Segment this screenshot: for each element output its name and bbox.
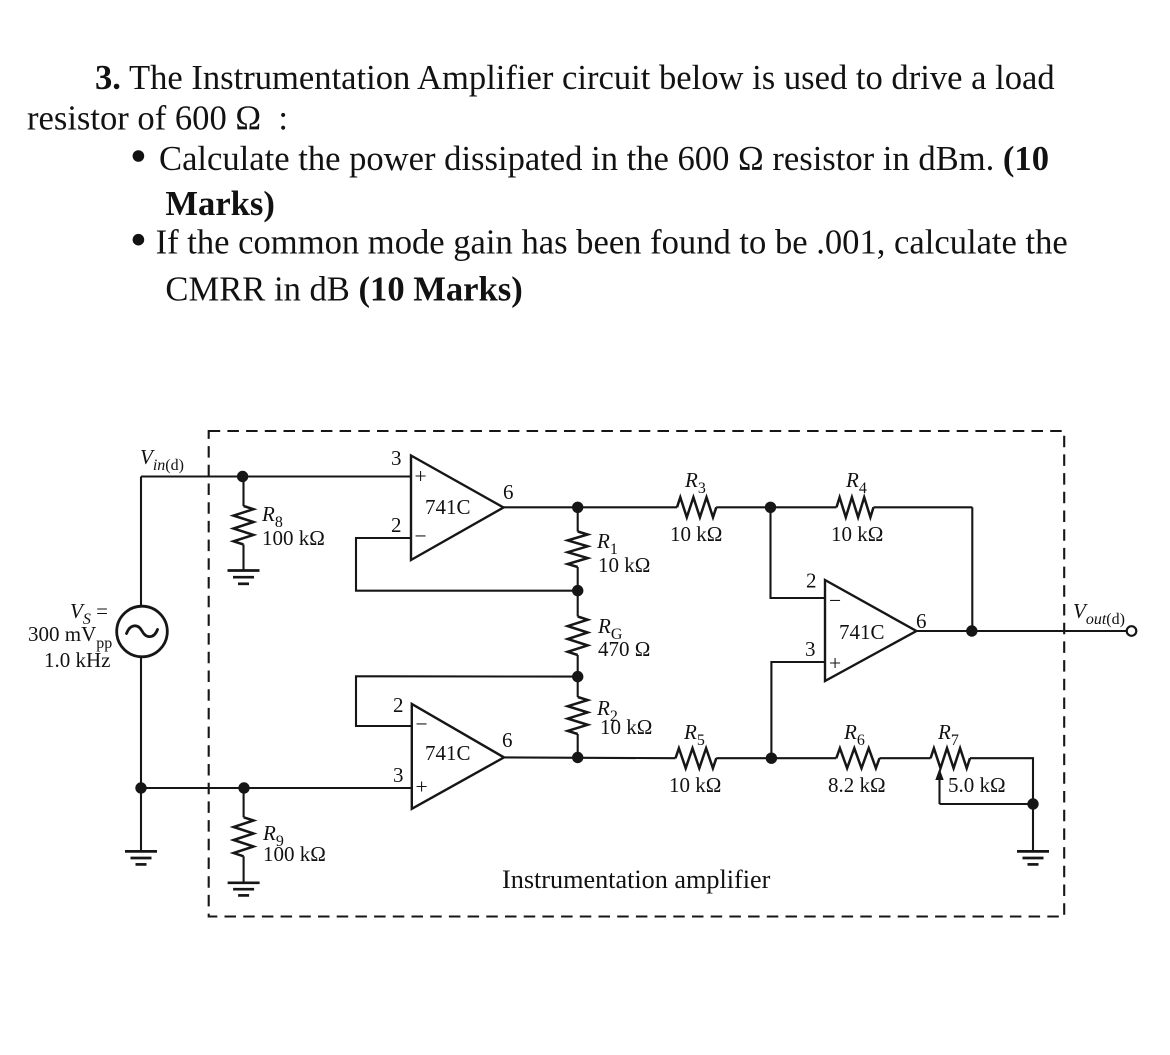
dashed enclosure box bbox=[209, 431, 1064, 917]
U3 label 741C bbox=[425, 741, 471, 765]
svg-text:R3: R3 bbox=[684, 468, 706, 497]
RG label bbox=[597, 614, 623, 643]
node junction R7 wiper/ground bbox=[1027, 798, 1038, 809]
VS value label bbox=[28, 599, 112, 672]
R5 label bbox=[683, 720, 705, 749]
svg-text:R5: R5 bbox=[683, 720, 705, 749]
svg-text:6: 6 bbox=[502, 728, 513, 752]
resistor R9 bbox=[234, 788, 254, 883]
op-amp U3 741C bbox=[412, 704, 504, 809]
voltage source VS bbox=[117, 606, 168, 657]
R9 label bbox=[262, 821, 284, 850]
svg-text:−: − bbox=[829, 589, 841, 613]
svg-text:−: − bbox=[415, 524, 427, 548]
svg-text:741C: 741C bbox=[839, 620, 885, 644]
svg-text:5.0 kΩ: 5.0 kΩ bbox=[948, 773, 1006, 797]
svg-text:Vout(d): Vout(d) bbox=[1073, 599, 1125, 628]
node Vout(d) label bbox=[1073, 599, 1125, 628]
R9 value label bbox=[263, 842, 326, 866]
svg-text:+: + bbox=[416, 775, 428, 799]
svg-text:2: 2 bbox=[391, 513, 402, 537]
svg-text:2: 2 bbox=[393, 693, 404, 717]
R1 value label bbox=[598, 553, 650, 577]
svg-text:R4: R4 bbox=[845, 468, 867, 497]
node junction RG/R2/feedback3 bbox=[572, 671, 583, 682]
caption Instrumentation amplifier bbox=[502, 865, 771, 894]
wire R7 ground lead bbox=[1032, 804, 1034, 851]
resistor R8 bbox=[234, 477, 254, 571]
ground (source) bbox=[125, 851, 157, 864]
svg-text:10 kΩ: 10 kΩ bbox=[669, 773, 721, 797]
R7 label bbox=[937, 720, 959, 749]
resistor R1 bbox=[568, 507, 588, 590]
wire U3 feedback pin2 bbox=[356, 676, 578, 726]
R3 label bbox=[684, 468, 706, 497]
ground (R8) bbox=[228, 571, 260, 584]
wire U1 output rail bbox=[504, 506, 678, 508]
svg-text:2: 2 bbox=[806, 569, 817, 593]
R4 value label bbox=[831, 522, 883, 546]
node junction R5/U2 pin3 bbox=[766, 753, 777, 764]
svg-text:100 kΩ: 100 kΩ bbox=[263, 842, 326, 866]
U1 label 741C bbox=[425, 495, 471, 519]
svg-text:100 kΩ: 100 kΩ bbox=[262, 526, 325, 550]
R6 label bbox=[843, 720, 865, 749]
svg-text:10 kΩ: 10 kΩ bbox=[600, 715, 652, 739]
wire U1 feedback pin2 bbox=[356, 538, 578, 591]
svg-text:+: + bbox=[829, 651, 841, 675]
wire U2 fb vertical bbox=[771, 507, 826, 598]
wire U3 output rail bbox=[504, 756, 676, 759]
bullet 2 bbox=[133, 234, 145, 246]
svg-text:6: 6 bbox=[916, 609, 927, 633]
question text line 5 bbox=[156, 223, 1068, 261]
potentiometer R7 bbox=[931, 748, 1033, 804]
svg-text:8.2 kΩ: 8.2 kΩ bbox=[828, 773, 886, 797]
U2 label 741C bbox=[839, 620, 885, 644]
resistor R2 bbox=[568, 677, 588, 758]
svg-text:R7: R7 bbox=[937, 720, 959, 749]
svg-text:10 kΩ: 10 kΩ bbox=[670, 522, 722, 546]
U3 pin 3 label bbox=[393, 763, 404, 787]
node junction source/bottom-rail bbox=[135, 782, 146, 793]
node junction U1out/R1 bbox=[572, 502, 583, 513]
resistor R5 bbox=[676, 748, 837, 768]
R3 value label bbox=[670, 522, 722, 546]
node junction U2out/R4 bbox=[966, 625, 977, 636]
svg-text:If the common mode gain has be: If the common mode gain has been found t… bbox=[156, 223, 1068, 261]
node junction R2/U3out bbox=[572, 752, 583, 763]
output terminal bbox=[1127, 626, 1137, 636]
U1 pin 2 label bbox=[391, 513, 402, 537]
svg-text:6: 6 bbox=[503, 480, 514, 504]
resistor R4 bbox=[771, 497, 973, 517]
U3 pin 2 label bbox=[393, 693, 404, 717]
svg-text:Marks): Marks) bbox=[165, 185, 274, 223]
resistor RG bbox=[568, 591, 588, 677]
wire bottom rail to U3 pin3 bbox=[141, 787, 412, 789]
R5 value label bbox=[669, 773, 721, 797]
op-amp U1 741C bbox=[411, 456, 504, 561]
svg-text:10 kΩ: 10 kΩ bbox=[598, 553, 650, 577]
R2 label bbox=[596, 696, 618, 725]
question text line 4 bbox=[165, 185, 274, 223]
op-amp U2 741C bbox=[825, 580, 916, 681]
R1 label bbox=[596, 529, 618, 558]
R8 value label bbox=[262, 526, 325, 550]
wire source ground lead bbox=[140, 788, 142, 851]
node Vin(d) label bbox=[140, 445, 184, 474]
node junction R3/R4/U2 fb bbox=[765, 502, 776, 513]
question text line 1 bbox=[95, 59, 1055, 97]
svg-text:3: 3 bbox=[393, 763, 404, 787]
R7 wiper arrow bbox=[935, 769, 1033, 805]
svg-text:Vin(d): Vin(d) bbox=[140, 445, 184, 474]
RG value label bbox=[598, 637, 650, 661]
svg-text:resistor of 600 Ω :: resistor of 600 Ω : bbox=[27, 100, 288, 138]
wire top rail Vin to op-amp U1 pin 3 bbox=[141, 475, 411, 477]
svg-text:741C: 741C bbox=[425, 741, 471, 765]
svg-text:3: 3 bbox=[391, 446, 402, 470]
U3 pin 6 label bbox=[502, 728, 513, 752]
U2 pin 2 label bbox=[806, 569, 817, 593]
resistor R3 bbox=[677, 497, 771, 517]
question text line 2 bbox=[27, 100, 288, 138]
U2 pin 6 label bbox=[916, 609, 927, 633]
svg-text:R6: R6 bbox=[843, 720, 865, 749]
svg-text:470 Ω: 470 Ω bbox=[598, 637, 650, 661]
R8 label bbox=[261, 502, 283, 531]
U2 pin 3 label bbox=[805, 637, 816, 661]
node junction R9 top bbox=[238, 782, 249, 793]
svg-text:+: + bbox=[415, 464, 427, 488]
U1 pin 3 label bbox=[391, 446, 402, 470]
U1 pin 6 label bbox=[503, 480, 514, 504]
node junction R1/RG/feedback1 bbox=[572, 585, 583, 596]
R6 value label bbox=[828, 773, 886, 797]
ground (R7) bbox=[1017, 851, 1049, 864]
wire R4 to U2 output bbox=[971, 507, 973, 631]
wire source bottom vertical bbox=[140, 657, 142, 788]
svg-text:1.0 kHz: 1.0 kHz bbox=[44, 648, 111, 672]
wire R5 node to U2 pin3 bbox=[771, 662, 825, 758]
R4 label bbox=[845, 468, 867, 497]
wire source top vertical bbox=[140, 477, 142, 607]
R7 value label bbox=[948, 773, 1006, 797]
wire U2 output to Vout bbox=[916, 630, 1127, 632]
question text line 6 bbox=[165, 270, 522, 308]
bullet 1 bbox=[133, 150, 145, 162]
question text line 3 bbox=[159, 140, 1049, 178]
svg-text:3. The Instrumentation Amplifi: 3. The Instrumentation Amplifier circuit… bbox=[95, 59, 1055, 97]
svg-text:Calculate the power dissipated: Calculate the power dissipated in the 60… bbox=[159, 140, 1049, 178]
svg-text:10 kΩ: 10 kΩ bbox=[831, 522, 883, 546]
node junction Vin/R8 bbox=[237, 471, 248, 482]
resistor R6 bbox=[836, 748, 930, 768]
svg-text:741C: 741C bbox=[425, 495, 471, 519]
svg-text:3: 3 bbox=[805, 637, 816, 661]
svg-text:−: − bbox=[416, 712, 428, 736]
svg-text:Instrumentation amplifier: Instrumentation amplifier bbox=[502, 865, 771, 894]
R2 value label bbox=[600, 715, 652, 739]
svg-text:CMRR in dB (10 Marks): CMRR in dB (10 Marks) bbox=[165, 270, 522, 308]
ground (R9) bbox=[228, 883, 260, 896]
